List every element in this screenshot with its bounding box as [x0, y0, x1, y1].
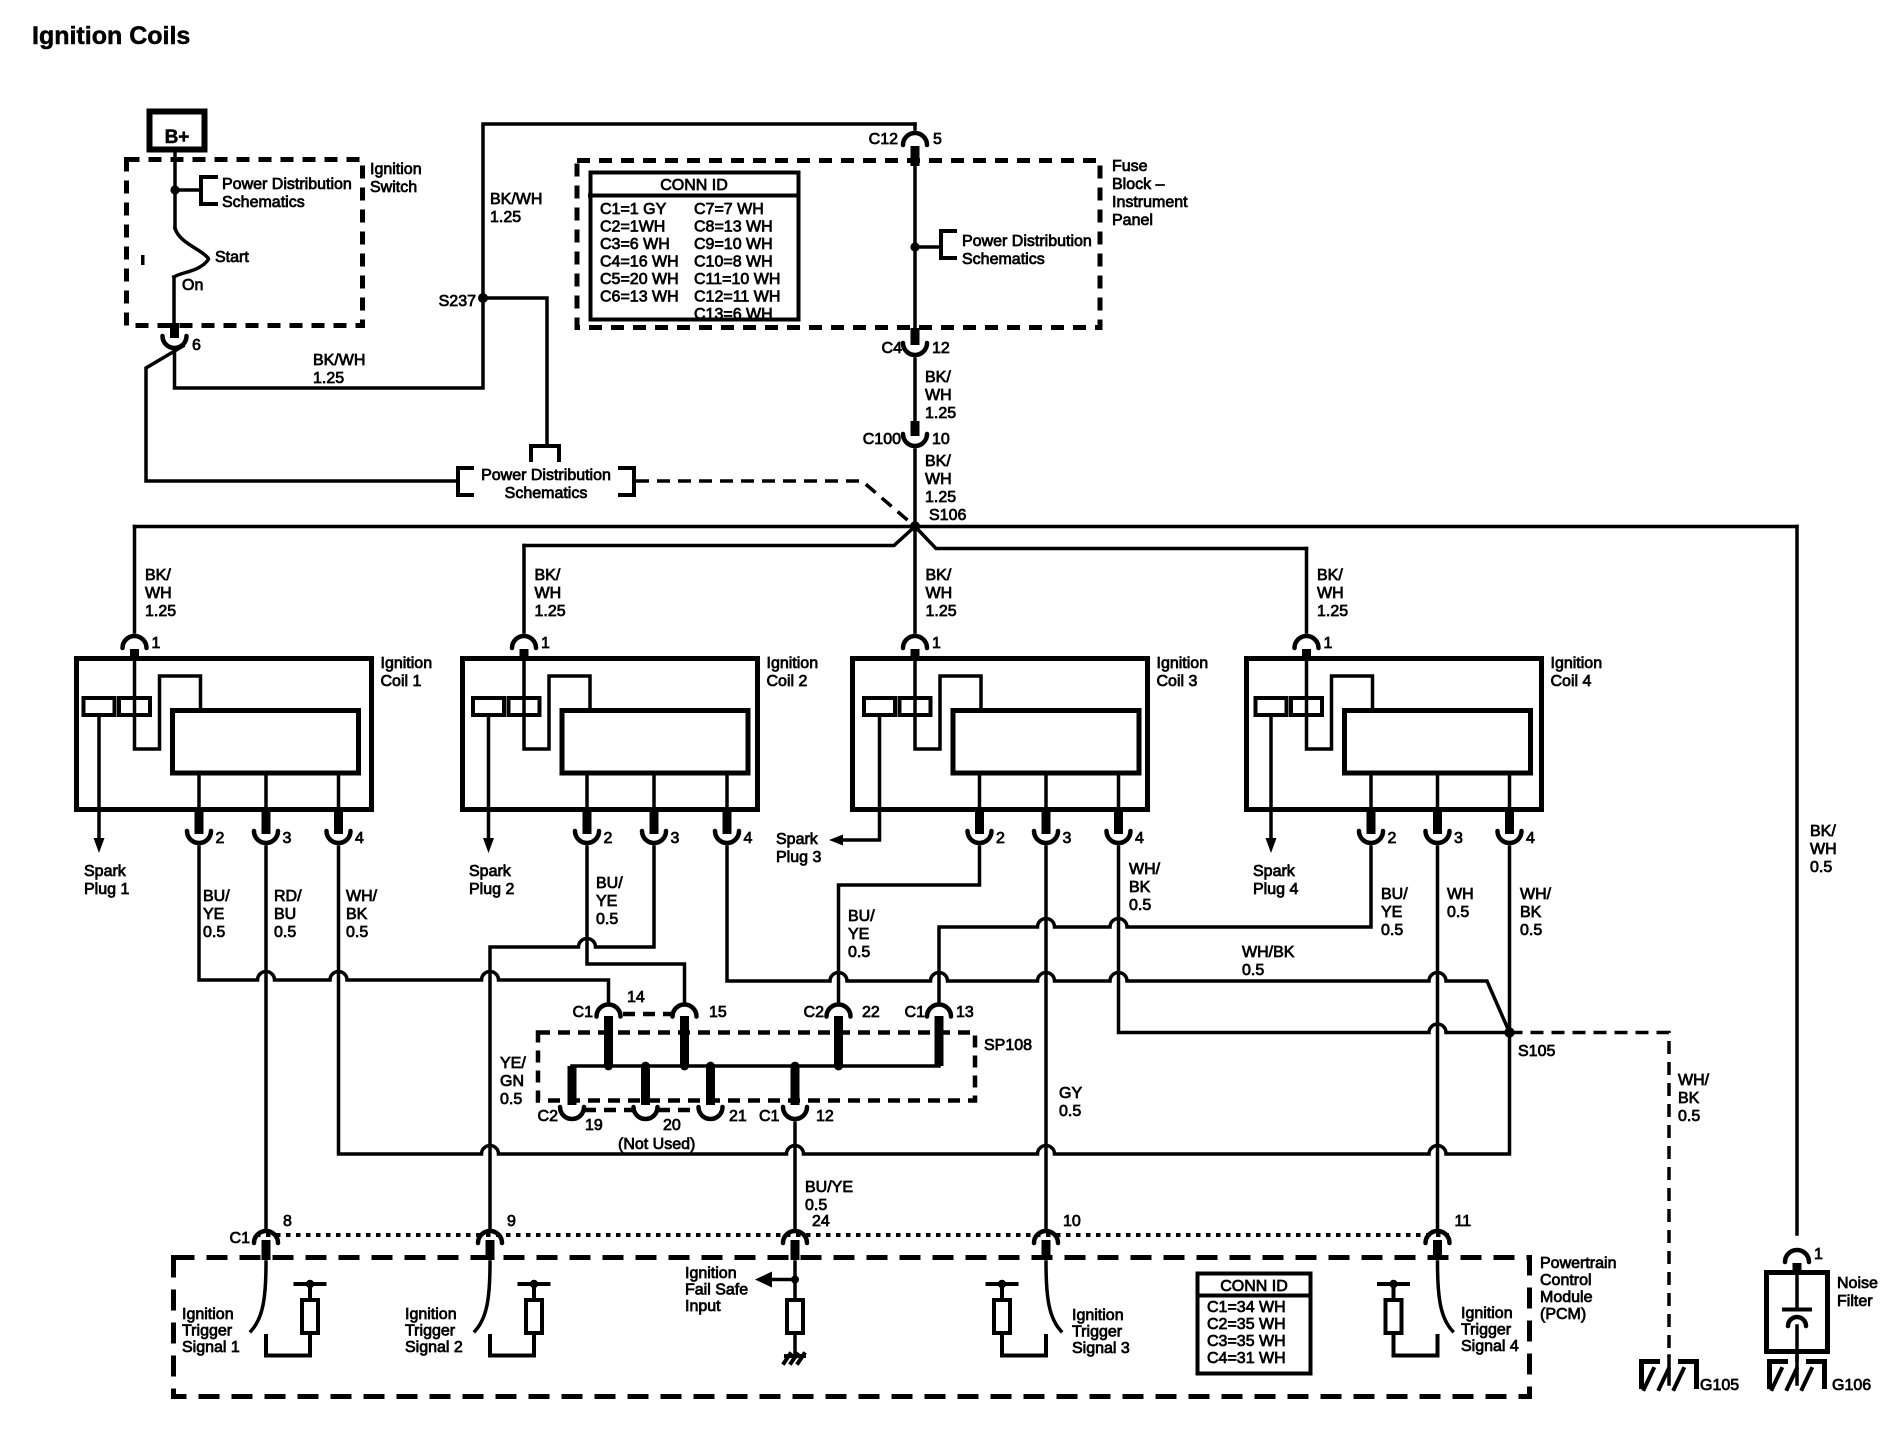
svg-text:1: 1	[1324, 635, 1333, 652]
ignition fail safe input wire	[793, 1262, 797, 1300]
SP108 pin 21 stub	[706, 1066, 715, 1105]
svg-text:SP108: SP108	[984, 1037, 1032, 1054]
svg-text:C1=34 WH: C1=34 WH	[1207, 1299, 1286, 1316]
svg-text:WH: WH	[1317, 585, 1344, 602]
svg-text:13: 13	[956, 1004, 974, 1021]
splice S106	[910, 521, 920, 531]
svg-text:S237: S237	[439, 293, 476, 310]
resistor R4 (trigger 4)	[1386, 1300, 1402, 1333]
svg-text:Power Distribution: Power Distribution	[222, 176, 352, 193]
svg-text:Ignition: Ignition	[1157, 655, 1209, 672]
wire RD/BU coil 1 pin 3 to PCM pin 8	[264, 847, 268, 1230]
ignition coil 1 pin 1 cup	[123, 636, 147, 648]
connector table CONN ID (fuse block)	[591, 173, 799, 320]
trigger 4 contact bracket	[1394, 1334, 1438, 1356]
svg-text:GY: GY	[1059, 1085, 1082, 1102]
svg-text:BU/YE: BU/YE	[805, 1179, 853, 1196]
svg-text:1.25: 1.25	[1317, 603, 1348, 620]
svg-text:YE: YE	[1381, 904, 1402, 921]
svg-text:BK/: BK/	[925, 453, 951, 470]
ignition coil 2 pin 3 lead	[652, 773, 656, 812]
ignition coil 2 primary winding blocks	[473, 698, 504, 715]
svg-text:15: 15	[709, 1004, 727, 1021]
ignition coil 1 spark output wire	[97, 715, 101, 839]
resistor fail safe	[787, 1300, 803, 1333]
svg-text:WH: WH	[535, 585, 562, 602]
svg-text:CONN ID: CONN ID	[660, 177, 728, 194]
svg-text:10: 10	[1063, 1213, 1081, 1230]
ignition coil 4 pin 4 cup	[1498, 831, 1522, 843]
ignition coil 2 pin 4 stub	[723, 812, 732, 834]
ignition coil 2 pin 3 cup	[642, 831, 666, 843]
SP108 pin 15 stub	[680, 1016, 689, 1066]
svg-text:C12=11 WH: C12=11 WH	[694, 289, 780, 306]
SP108 pin 13 cup	[927, 1005, 951, 1017]
svg-text:24: 24	[812, 1213, 830, 1230]
svg-text:2: 2	[996, 830, 1005, 847]
connector C100 pin 10 stub	[911, 421, 920, 436]
svg-text:BK/: BK/	[145, 567, 171, 584]
PCM pin 11 cup	[1426, 1231, 1450, 1243]
SP108 pin 20 cup	[634, 1107, 658, 1119]
svg-text:1: 1	[541, 635, 550, 652]
PCM pin row dotted line	[256, 1233, 1449, 1237]
svg-text:C7=7 WH: C7=7 WH	[694, 201, 764, 218]
ignition coil 3 pin 3 lead	[1044, 773, 1048, 812]
svg-text:0.5: 0.5	[1129, 897, 1151, 914]
wire BK/WH between C4 and C100	[913, 359, 917, 421]
svg-text:C2=35 WH: C2=35 WH	[1207, 1316, 1286, 1333]
ignition coil 3 secondary block	[953, 711, 1139, 774]
wire inside fuse block	[913, 166, 917, 328]
ignition coil 2 spark output wire	[487, 715, 491, 839]
svg-text:BU/: BU/	[1381, 886, 1408, 903]
trigger 3 switch	[1046, 1262, 1061, 1331]
svg-text:C1: C1	[905, 1004, 926, 1021]
SP108 pin 15 cup	[673, 1005, 697, 1017]
SP108 pin 13 stub	[935, 1016, 944, 1066]
svg-text:Panel: Panel	[1112, 212, 1153, 229]
wire branch to power distribution reference (fuse block)	[915, 245, 939, 249]
ground G106	[1767, 1359, 1788, 1364]
svg-text:WH: WH	[925, 387, 952, 404]
svg-text:BK/: BK/	[926, 567, 952, 584]
trigger 2 contact bracket	[490, 1334, 534, 1356]
ignition coil 4 pin 1 cup	[1295, 636, 1319, 648]
wire BU/YE SP108 pin 12 to PCM pin 24	[793, 1123, 797, 1230]
svg-text:2: 2	[216, 830, 225, 847]
ignition coil 3 pin 4 cup	[1107, 831, 1131, 843]
noise filter pin 1 stub	[1793, 1263, 1802, 1273]
PCM pin 10 cup	[1034, 1231, 1058, 1243]
dashed link pins 14-15	[623, 1012, 672, 1017]
ignition coil 1 primary winding blocks	[84, 698, 115, 715]
connector bracket above power distribution reference	[531, 446, 559, 460]
resistor R1 (trigger 1)	[302, 1300, 318, 1333]
wire BK/WH from C100 to S106	[913, 450, 917, 524]
svg-text:5: 5	[933, 131, 942, 148]
svg-text:WH/: WH/	[1678, 1072, 1710, 1089]
svg-text:C13=6 WH: C13=6 WH	[694, 306, 773, 323]
SP108 pin 19 stub	[568, 1066, 577, 1105]
svg-text:C1: C1	[759, 1108, 780, 1125]
svg-text:3: 3	[283, 830, 292, 847]
connector C100 pin 10 cup	[903, 434, 927, 446]
svg-text:BU/: BU/	[596, 875, 623, 892]
wire bus BK/WH upper	[135, 525, 1798, 529]
svg-text:Trigger: Trigger	[405, 1323, 456, 1340]
svg-text:RD/: RD/	[274, 888, 302, 905]
svg-text:WH: WH	[926, 585, 953, 602]
PCM pin 24 cup	[783, 1231, 807, 1243]
ignition coil 4 primary winding blocks	[1256, 698, 1287, 715]
resistor R2 (trigger 2)	[526, 1300, 542, 1333]
wire drop to ignition coil 4 pin 1	[1305, 549, 1309, 633]
svg-text:Spark: Spark	[84, 863, 127, 880]
connector table CONN ID (PCM)	[1198, 1274, 1311, 1374]
svg-text:Ignition: Ignition	[685, 1265, 737, 1282]
wire drop to ignition coil 3 pin 1	[913, 527, 917, 633]
svg-text:WH: WH	[1447, 886, 1474, 903]
svg-text:Power Distribution: Power Distribution	[481, 467, 611, 484]
ignition coil 3 spark output wire	[843, 715, 880, 840]
svg-text:20: 20	[663, 1117, 681, 1134]
wire BU/YE coil 1 pin 2 to SP108 pin 14	[199, 847, 609, 1001]
wire BU/YE coil 4 pin 2 to SP108 pin 13	[939, 847, 1371, 1001]
wire S237 branch to power distribution reference	[483, 298, 547, 444]
svg-text:1.25: 1.25	[535, 603, 566, 620]
svg-text:1.25: 1.25	[925, 405, 956, 422]
ignition coil 3 pin 2 lead	[978, 773, 982, 812]
svg-text:BK/: BK/	[925, 369, 951, 386]
SP108 pin 20 stub	[641, 1066, 650, 1105]
wire branch to power distribution reference	[175, 188, 199, 192]
ignition coil 2 pin 2 cup	[575, 831, 599, 843]
svg-text:WH: WH	[925, 471, 952, 488]
wire BK/WH from pin 6 to S237 riser and C12	[175, 124, 916, 388]
PCM internal ground	[784, 1354, 790, 1363]
svg-text:BK: BK	[1520, 904, 1542, 921]
svg-text:Ignition: Ignition	[381, 655, 433, 672]
svg-text:Block –: Block –	[1112, 176, 1165, 193]
ignition coil 1 pin 3 lead	[264, 773, 268, 812]
ignition coil 3 box	[853, 659, 1148, 810]
svg-text:Signal 1: Signal 1	[182, 1339, 240, 1356]
ignition coil 1 pin 2 lead	[197, 773, 201, 812]
svg-text:C8=13 WH: C8=13 WH	[694, 219, 773, 236]
ignition coil 3 pin 2 stub	[975, 812, 984, 834]
svg-text:C1=1 GY: C1=1 GY	[600, 201, 667, 218]
ignition coil 2 pin 4 cup	[715, 831, 739, 843]
svg-text:Ignition: Ignition	[1072, 1307, 1124, 1324]
trigger 3 pull-up bar	[988, 1282, 1017, 1286]
SP108 pin 19 cup	[560, 1107, 584, 1119]
svg-text:WH/: WH/	[1520, 886, 1552, 903]
connector pin 6 stub	[170, 323, 179, 338]
svg-text:Powertrain: Powertrain	[1540, 1255, 1616, 1272]
connector C12 pin 5 cup	[913, 124, 917, 129]
svg-text:Ignition: Ignition	[182, 1306, 234, 1323]
svg-text:Plug 4: Plug 4	[1253, 881, 1298, 898]
svg-text:C12: C12	[869, 131, 898, 148]
svg-text:On: On	[182, 277, 203, 294]
svg-text:Coil 3: Coil 3	[1157, 673, 1198, 690]
svg-text:1: 1	[152, 635, 161, 652]
svg-text:C4=31 WH: C4=31 WH	[1207, 1350, 1286, 1367]
ignition coil 1 pin 2 cup	[187, 831, 211, 843]
svg-text:C1: C1	[573, 1004, 594, 1021]
wire WH coil 4 pin 3 to PCM pin 11	[1436, 847, 1440, 1230]
svg-text:YE: YE	[848, 926, 869, 943]
svg-text:0.5: 0.5	[1810, 859, 1832, 876]
PCM pin 24 stub	[791, 1240, 800, 1260]
ignition coil 4 spark output wire	[1269, 715, 1273, 839]
ignition coil 4 box	[1247, 659, 1542, 810]
svg-text:GN: GN	[500, 1073, 524, 1090]
reference bracket power distribution (fuse block)	[941, 231, 955, 258]
fail safe ground wire	[793, 1333, 797, 1357]
node fail safe tap	[791, 1276, 799, 1284]
svg-text:YE: YE	[203, 906, 224, 923]
splice S237	[478, 293, 488, 303]
ignition coil 1 pin 1 stub	[130, 649, 139, 659]
svg-text:0.5: 0.5	[1447, 904, 1469, 921]
svg-text:1.25: 1.25	[313, 370, 344, 387]
wire B+ feed	[173, 150, 177, 188]
trigger 2 switch	[475, 1262, 490, 1331]
svg-text:Trigger: Trigger	[182, 1323, 233, 1340]
svg-text:C4: C4	[882, 340, 903, 357]
ignition coil 2 secondary block	[562, 711, 748, 774]
reference brackets power distribution (bottom)	[458, 468, 472, 495]
noise filter box	[1767, 1273, 1828, 1352]
svg-text:S105: S105	[1518, 1043, 1555, 1060]
svg-text:Module: Module	[1540, 1289, 1593, 1306]
powertrain control module dashed box	[174, 1258, 1530, 1397]
ignition coil 4 internal wiring	[1307, 659, 1373, 749]
svg-text:WH/: WH/	[346, 888, 378, 905]
svg-text:1: 1	[932, 635, 941, 652]
svg-text:1.25: 1.25	[145, 603, 176, 620]
svg-text:Fail Safe: Fail Safe	[685, 1282, 748, 1299]
svg-text:22: 22	[862, 1004, 880, 1021]
wire GY coil 3 pin 3 to PCM pin 10	[1044, 847, 1048, 1230]
svg-text:BU/: BU/	[203, 888, 230, 905]
ignition coil 3 primary winding blocks	[864, 698, 895, 715]
ignition coil 1 pin 3 cup	[254, 831, 278, 843]
svg-text:8: 8	[283, 1213, 292, 1230]
wire WH/BK coil 3 pin 4 to splice S105	[1119, 847, 1505, 1033]
SP108 pin 22 cup	[827, 1005, 851, 1017]
svg-text:Fuse: Fuse	[1112, 158, 1148, 175]
wire BU/YE coil 3 pin 2 to SP108 pin 22	[839, 847, 980, 1001]
svg-text:0.5: 0.5	[1381, 922, 1403, 939]
svg-text:0.5: 0.5	[848, 944, 870, 961]
svg-text:Control: Control	[1540, 1272, 1592, 1289]
svg-text:C3=35 WH: C3=35 WH	[1207, 1333, 1286, 1350]
ignition coil 1 pin 4 cup	[327, 831, 351, 843]
PCM pin 10 stub	[1042, 1240, 1051, 1260]
switch position tick	[141, 255, 145, 265]
ignition coil 1 box	[77, 659, 372, 810]
svg-text:19: 19	[585, 1117, 603, 1134]
svg-text:Ignition: Ignition	[370, 161, 422, 178]
svg-text:10: 10	[932, 431, 950, 448]
ignition coil 2 pin 1 stub	[520, 649, 529, 659]
svg-text:0.5: 0.5	[1520, 922, 1542, 939]
ignition coil 2 pin 1 cup	[512, 636, 536, 648]
svg-text:Ignition: Ignition	[1551, 655, 1603, 672]
svg-text:12: 12	[932, 340, 950, 357]
svg-text:14: 14	[627, 989, 645, 1006]
PCM pin 9 stub	[486, 1240, 495, 1260]
reference bracket power distribution (ignition switch)	[201, 177, 216, 204]
wire WH/BK coil 2 pin 4 to splice S105	[727, 847, 1510, 1033]
svg-text:Power Distribution: Power Distribution	[962, 233, 1092, 250]
splice pack SP108 dashed box	[538, 1033, 975, 1101]
svg-text:9: 9	[507, 1213, 516, 1230]
svg-text:0.5: 0.5	[1678, 1108, 1700, 1125]
svg-text:0.5: 0.5	[203, 924, 225, 941]
svg-text:Schematics: Schematics	[962, 251, 1045, 268]
svg-text:WH/: WH/	[1129, 861, 1161, 878]
svg-text:Plug 1: Plug 1	[84, 881, 129, 898]
ignition coil 4 pin 2 lead	[1369, 773, 1373, 812]
ignition coil 2 pin 4 lead	[725, 773, 729, 812]
fail safe arrow	[770, 1278, 795, 1282]
ignition coil 3 pin 3 stub	[1042, 812, 1051, 834]
svg-text:BK/: BK/	[535, 567, 561, 584]
svg-text:WH: WH	[145, 585, 172, 602]
svg-text:Spark: Spark	[469, 863, 512, 880]
ignition coil 2 box	[463, 659, 758, 810]
svg-text:2: 2	[1388, 830, 1397, 847]
trigger 1 switch	[251, 1262, 266, 1331]
svg-text:11: 11	[1455, 1213, 1472, 1230]
svg-text:C3=6 WH: C3=6 WH	[600, 236, 670, 253]
svg-text:BK/: BK/	[1810, 823, 1836, 840]
wire BK/WH 0.5 to noise filter	[1795, 527, 1799, 1235]
ignition coil 3 pin 2 cup	[968, 831, 992, 843]
svg-text:G105: G105	[1700, 1377, 1739, 1394]
trigger 4 switch	[1438, 1262, 1453, 1331]
wire pin 6 second leg to power distribution reference	[146, 346, 456, 481]
ignition coil 1 pin 2 stub	[195, 812, 204, 834]
svg-text:Plug 3: Plug 3	[776, 849, 821, 866]
svg-text:1.25: 1.25	[925, 489, 956, 506]
ignition coil 3 pin 3 cup	[1034, 831, 1058, 843]
PCM pin 11 stub	[1433, 1240, 1442, 1260]
svg-text:Ignition: Ignition	[405, 1306, 457, 1323]
svg-text:CONN ID: CONN ID	[1220, 1278, 1288, 1295]
svg-text:1.25: 1.25	[926, 603, 957, 620]
svg-text:Filter: Filter	[1837, 1293, 1873, 1310]
svg-text:YE/: YE/	[500, 1055, 526, 1072]
svg-text:BU: BU	[274, 906, 296, 923]
svg-text:C6=13 WH: C6=13 WH	[600, 289, 679, 306]
svg-text:0.5: 0.5	[346, 924, 368, 941]
svg-text:Ignition Coils: Ignition Coils	[32, 22, 190, 50]
svg-text:21: 21	[729, 1108, 747, 1125]
svg-text:C11=10 WH: C11=10 WH	[694, 271, 780, 288]
svg-text:C5=20 WH: C5=20 WH	[600, 271, 679, 288]
svg-text:S106: S106	[929, 507, 966, 524]
ignition coil 4 pin 3 cup	[1426, 831, 1450, 843]
svg-text:1.25: 1.25	[490, 209, 521, 226]
wire drop to ignition coil 2 pin 1	[522, 546, 526, 633]
svg-text:WH: WH	[1810, 841, 1837, 858]
PCM pin 9 cup	[478, 1231, 502, 1243]
svg-text:BK: BK	[1678, 1090, 1700, 1107]
ignition coil 4 pin 4 stub	[1505, 812, 1514, 834]
trigger 1 contact bracket	[266, 1334, 310, 1356]
svg-text:WH/BK: WH/BK	[1242, 944, 1295, 961]
svg-text:2: 2	[604, 830, 613, 847]
connector C4 pin 12 cup	[903, 343, 927, 355]
svg-text:Switch: Switch	[370, 179, 417, 196]
svg-text:1: 1	[1814, 1246, 1823, 1263]
svg-text:0.5: 0.5	[274, 924, 296, 941]
fuse block dashed box	[577, 161, 1100, 328]
svg-text:(PCM): (PCM)	[1540, 1306, 1586, 1323]
svg-text:Schematics: Schematics	[505, 485, 588, 502]
svg-text:G106: G106	[1832, 1377, 1871, 1394]
ignition coil 2 pin 2 lead	[585, 773, 589, 812]
ignition switch S contact	[173, 190, 177, 228]
wire WH/BK coil 4 pin 4 to splice S105	[1508, 847, 1512, 1033]
svg-text:BK: BK	[1129, 879, 1151, 896]
svg-text:C10=8 WH: C10=8 WH	[694, 254, 773, 271]
SP108 pin 14 stub	[604, 1016, 613, 1066]
svg-text:Coil 2: Coil 2	[767, 673, 808, 690]
svg-text:Schematics: Schematics	[222, 194, 305, 211]
noise filter pin 1 cup	[1785, 1250, 1809, 1262]
svg-text:Plug 2: Plug 2	[469, 881, 514, 898]
svg-text:Trigger: Trigger	[1461, 1322, 1512, 1339]
wire WH/BK coil 1 pin 4 to splice S105	[339, 847, 1510, 1154]
ignition coil 4 pin 2 stub	[1367, 812, 1376, 834]
node junction in ignition switch	[170, 185, 179, 194]
svg-text:4: 4	[1526, 830, 1535, 847]
dashed link pins 19-20-21	[584, 1108, 633, 1113]
svg-text:BK/WH: BK/WH	[313, 352, 365, 369]
svg-text:C4=16 WH: C4=16 WH	[600, 254, 679, 271]
svg-text:Ignition: Ignition	[767, 655, 819, 672]
svg-text:4: 4	[744, 830, 753, 847]
ignition coil 1 pin 4 stub	[334, 812, 343, 834]
connector pin 6 cup	[163, 336, 187, 348]
svg-text:Signal 2: Signal 2	[405, 1339, 463, 1356]
connector C12 pin 5 stub	[911, 146, 920, 166]
connector C4 pin 12 stub	[911, 328, 920, 345]
svg-text:6: 6	[192, 337, 201, 354]
trigger 4 pull-up bar	[1379, 1282, 1408, 1286]
PCM pin 8 cup	[254, 1231, 278, 1243]
ignition coil 1 secondary block	[173, 711, 359, 774]
SP108 pin 12 stub	[791, 1066, 800, 1105]
svg-text:BK/WH: BK/WH	[490, 191, 542, 208]
ignition coil 4 secondary block	[1345, 711, 1531, 774]
svg-text:Noise: Noise	[1837, 1275, 1878, 1292]
svg-text:4: 4	[1135, 830, 1144, 847]
ignition coil 2 pin 2 stub	[583, 812, 592, 834]
svg-text:C9=10 WH: C9=10 WH	[694, 236, 773, 253]
ignition coil 3 internal wiring	[915, 659, 981, 749]
resistor R3 (trigger 3)	[994, 1300, 1010, 1333]
svg-text:BU/: BU/	[848, 908, 875, 925]
ignition coil 1 pin 4 lead	[337, 773, 341, 812]
svg-text:Signal 3: Signal 3	[1072, 1340, 1130, 1357]
